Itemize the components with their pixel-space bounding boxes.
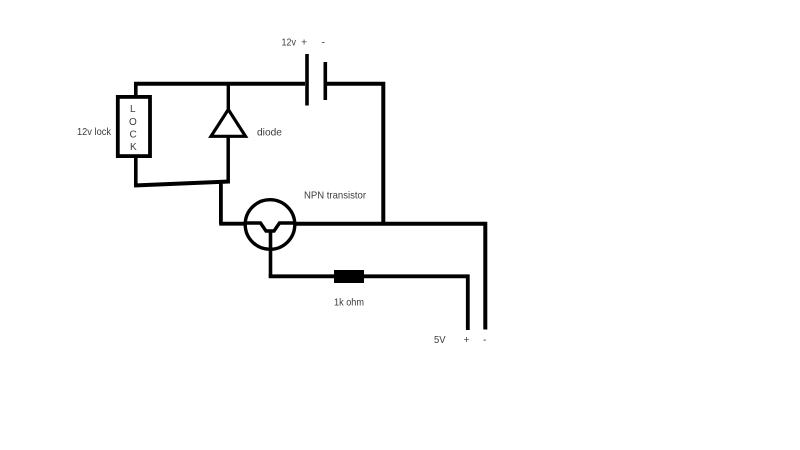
svg-text:12v lock: 12v lock xyxy=(77,126,112,138)
svg-text:NPN transistor: NPN transistor xyxy=(304,190,366,202)
svg-text:+: + xyxy=(301,37,307,49)
svg-text:5V: 5V xyxy=(434,334,446,346)
svg-text:K: K xyxy=(130,142,137,153)
svg-text:-: - xyxy=(483,334,487,346)
svg-text:12v: 12v xyxy=(282,37,297,49)
svg-text:L: L xyxy=(130,104,136,115)
svg-text:O: O xyxy=(129,117,137,128)
svg-text:C: C xyxy=(130,130,137,141)
svg-text:+: + xyxy=(464,334,470,346)
svg-text:-: - xyxy=(322,37,326,49)
svg-text:diode: diode xyxy=(257,127,282,139)
svg-text:1k ohm: 1k ohm xyxy=(334,297,364,309)
